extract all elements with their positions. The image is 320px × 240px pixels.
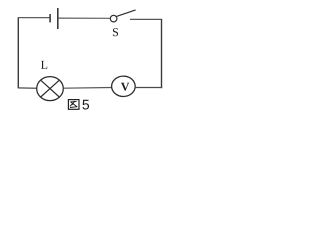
label L: [41, 61, 47, 69]
battery cell: long positive plate: [57, 8, 59, 29]
wire: switch to top-right corner: [130, 18, 162, 20]
wire: right vertical side: [161, 19, 163, 88]
voltmeter V: meter circle: [112, 76, 136, 96]
lamp L: cross stroke 2: [41, 80, 60, 97]
wire: top-left horizontal to battery: [18, 17, 50, 19]
switch S: pivot circle: [110, 15, 117, 22]
lamp L: cross stroke 1: [41, 80, 60, 97]
wire: battery to switch: [58, 17, 110, 19]
wire: left vertical side: [17, 18, 19, 88]
wire: bottom-left corner to lamp: [18, 87, 37, 89]
voltmeter V: letter V: [121, 83, 129, 91]
switch S: open lever arm: [117, 10, 136, 17]
caption: figure number 5: [82, 100, 89, 110]
wire: lamp to voltmeter: [63, 87, 112, 90]
wire: voltmeter to bottom-right corner: [135, 87, 162, 89]
battery cell: short negative plate: [49, 14, 51, 22]
label S: [113, 28, 118, 36]
caption: hanzi TU (figure) drawn glyph: [68, 100, 79, 110]
lamp L: bulb circle: [37, 77, 64, 101]
